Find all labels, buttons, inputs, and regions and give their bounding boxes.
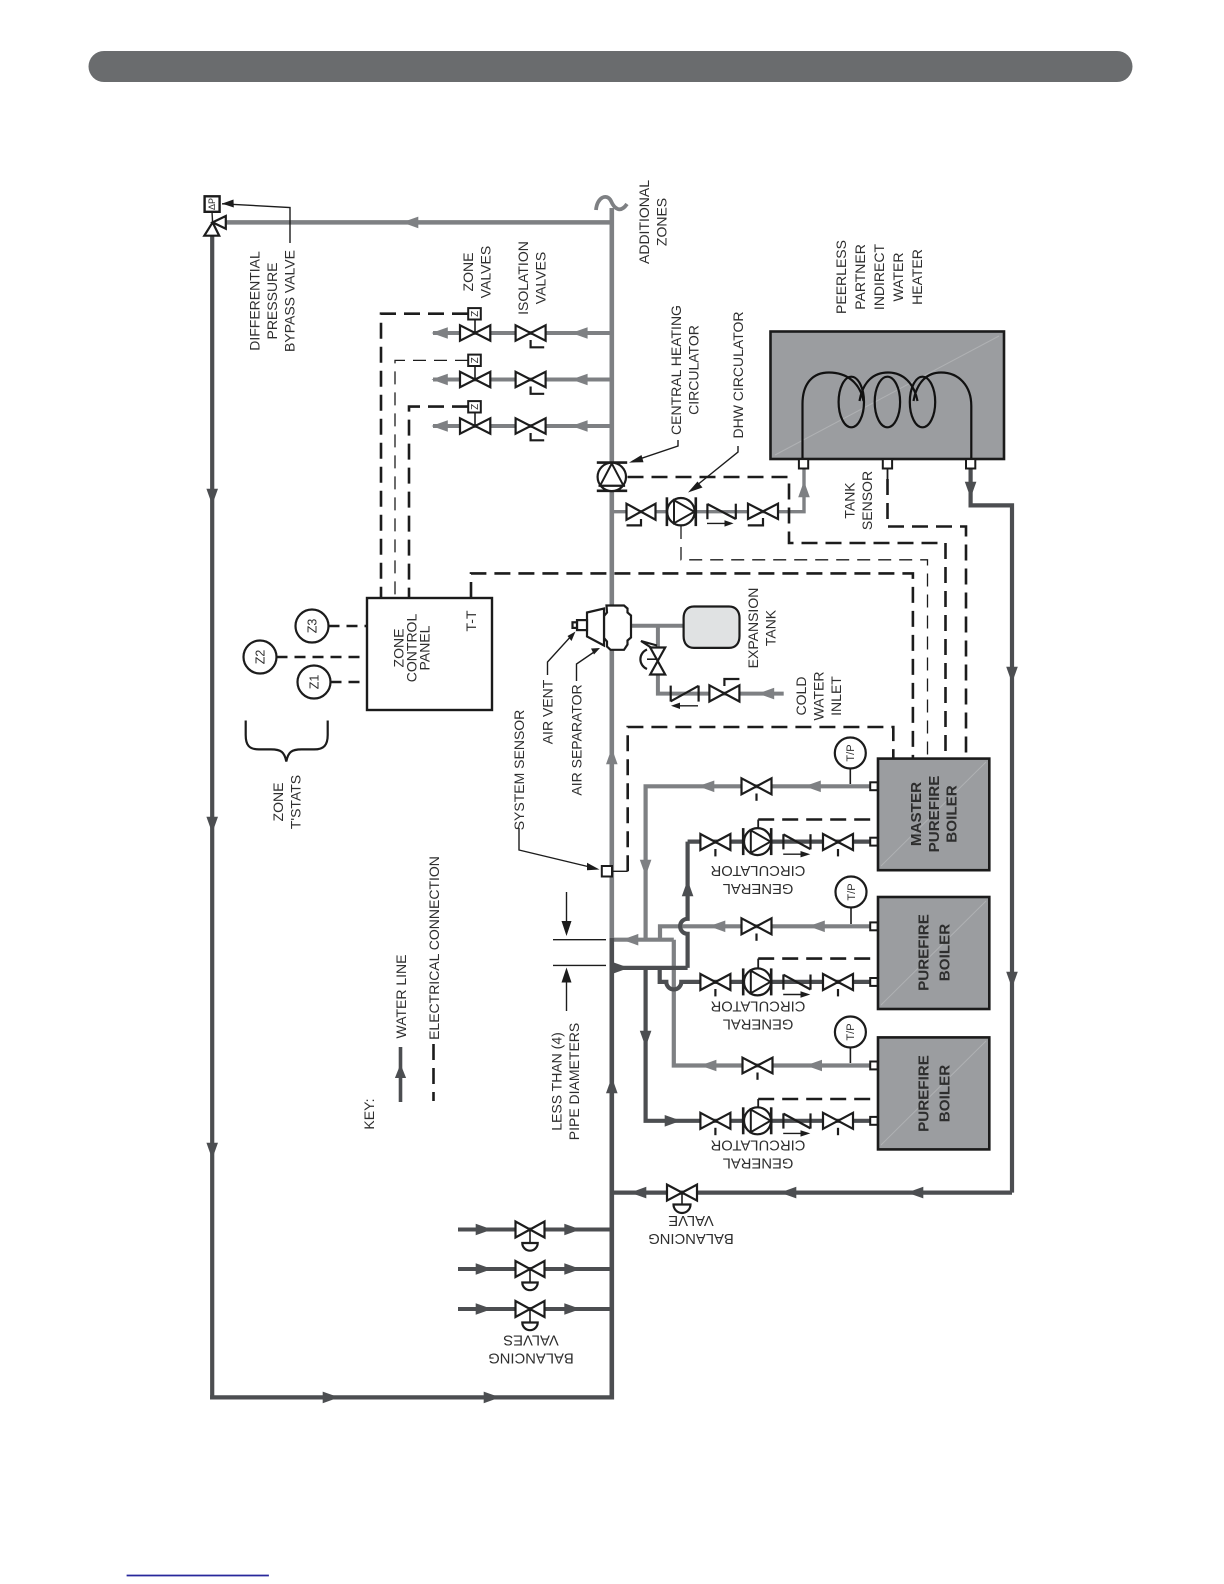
check valve: cold water (671, 686, 699, 709)
arrow: DHW riser up (798, 481, 810, 497)
balancing valve: zone return 3 (516, 1301, 545, 1330)
pump: DHW circulator (667, 497, 696, 526)
svg-text:ZONEVALVES: ZONEVALVES (460, 246, 494, 298)
arrow: zone return branch1 left arrow (476, 1224, 492, 1236)
svg-text:Z: Z (470, 404, 481, 410)
pressure reducing fill valve (640, 641, 665, 675)
svg-text:T/P: T/P (846, 883, 858, 900)
wire: thermostat Z3 to panel (329, 625, 368, 627)
ZONE VALVE ASSEMBLIES (460, 308, 546, 440)
wire: cold water fill pipe (656, 626, 660, 648)
arrow: right pipe down 2 (1006, 972, 1018, 988)
svg-text:TANKSENSOR: TANKSENSOR (842, 471, 876, 530)
svg-text:BALANCINGVALVES: BALANCINGVALVES (488, 1332, 574, 1366)
wire: zone return branch 1 (458, 1228, 612, 1232)
wire: master boiler to pump control (758, 818, 878, 821)
annotation: pipe spacing upper arrow (553, 892, 606, 940)
arrow: boiler3 return riser down (640, 1031, 652, 1047)
balancing valve: lower header (667, 1185, 697, 1213)
check valve: boiler3 return (783, 1113, 810, 1136)
svg-text:KEY:: KEY: (361, 1098, 377, 1129)
arrow: zone return branch2 left arrow (476, 1263, 492, 1275)
key: water line symbol (399, 1047, 403, 1102)
BOILER LINE COMPONENTS (700, 738, 866, 1137)
wire: supply header (612, 938, 674, 942)
wire: zone return branch 2 (458, 1267, 612, 1271)
arrow: left pipe down 3 (206, 1143, 218, 1159)
wire: main return riser lower (609, 938, 614, 1400)
thermostat Z1 circle (298, 666, 331, 699)
wire: boiler2 to pump control (758, 957, 878, 960)
arrow: left pipe down 1 (206, 489, 218, 505)
KEY LEGEND (395, 1044, 434, 1102)
arrow: zone branch1 left end (432, 327, 448, 339)
svg-text:T-T: T-T (463, 610, 479, 631)
svg-text:AIR SEPARATOR: AIR SEPARATOR (568, 684, 584, 795)
isolation valve 3 (516, 418, 546, 440)
svg-text:WATER LINE: WATER LINE (393, 954, 409, 1038)
T/P gauge master (835, 738, 866, 785)
wire: DHW circulator control (thin) (681, 526, 928, 758)
svg-text:T/P: T/P (845, 1023, 857, 1040)
wire: top bypass pipe (224, 220, 612, 225)
svg-text:SYSTEM SENSOR: SYSTEM SENSOR (511, 710, 527, 831)
arrow: boiler2 supply left segment left (709, 921, 725, 933)
arrow: return header right (613, 962, 629, 974)
zone valve 1 with Z actuator (460, 308, 490, 341)
svg-text:EXPANSIONTANK: EXPANSIONTANK (745, 588, 779, 669)
arrow: master supply left segment left (698, 781, 714, 793)
wire: tank sensor control (887, 469, 889, 481)
boiler2 PUREFIRE box (878, 897, 989, 1009)
wire: master boiler return riser V3 with hop (680, 842, 688, 968)
ARROWS-DARK (206, 482, 1017, 1403)
arrow: boiler2 supply right segment left (809, 921, 825, 933)
wire: bottom return pipe (210, 1395, 614, 1399)
wire: fill pipe lower (658, 675, 784, 694)
arrow: zone return branch3 left arrow (476, 1303, 492, 1315)
valve: boiler2 return right (823, 974, 853, 990)
water heater connector left (799, 459, 808, 468)
svg-text:Z1: Z1 (307, 675, 321, 690)
svg-text:Z: Z (470, 357, 481, 363)
water heater connector right (966, 459, 975, 468)
svg-text:Z: Z (470, 311, 481, 317)
isolation valve 2 (516, 372, 546, 394)
arrow: zone return branch2 right arrow (564, 1263, 580, 1275)
wire: central heating circulator control (628, 477, 946, 758)
wire: master boiler return line (688, 839, 870, 843)
wire: boiler3 return riser (646, 968, 870, 1121)
arrow: main return up (606, 1077, 618, 1093)
arrow: lower header left 1 (630, 1187, 646, 1199)
central heating circulator pump (597, 463, 627, 491)
svg-text:ZONET'STATS: ZONET'STATS (270, 775, 304, 829)
svg-text:BALANCINGVALVE: BALANCINGVALVE (648, 1212, 734, 1246)
leader: air separator label (577, 648, 601, 681)
boiler3 PUREFIRE box (878, 1037, 989, 1149)
T/P gauge boiler3 (835, 1017, 866, 1064)
wire: boiler2 supply line (660, 926, 870, 939)
check valve: boiler2 return (783, 975, 810, 998)
wire: system sensor to master boiler (628, 727, 894, 871)
arrow: master supply right segment left (805, 781, 821, 793)
arrow: lower header left mid (780, 1187, 796, 1199)
wire: main supply riser (609, 208, 614, 941)
check valve: DHW line (707, 504, 736, 527)
valve: DHW isolation valve (627, 504, 656, 526)
arrow: lower header left 2 (907, 1187, 923, 1199)
annotation: pipe spacing lower arrow (553, 965, 606, 1011)
svg-text:GENERALCIRCULATOR: GENERALCIRCULATOR (711, 862, 806, 896)
svg-text:DIFFERENTIALPRESSUREBYPASS VAL: DIFFERENTIALPRESSUREBYPASS VALVE (246, 250, 297, 352)
valve: DHW second isolation valve (748, 504, 778, 526)
arrow: zone branch3 inner (571, 420, 587, 432)
wire: zone supply branch 2 (433, 378, 612, 382)
BOXES (367, 332, 1004, 1150)
heat exchanger coil (803, 373, 972, 460)
wire: zone valve3 control (409, 407, 468, 598)
valve: master return right (823, 834, 853, 850)
wire: zone return branch 3 (458, 1307, 612, 1311)
balancing valve: zone return 2 (516, 1261, 545, 1290)
leader: system sensor label (519, 828, 600, 870)
svg-text:ELECTRICAL CONNECTION: ELECTRICAL CONNECTION (426, 856, 442, 1040)
svg-text:GENERALCIRCULATOR: GENERALCIRCULATOR (711, 1137, 806, 1171)
pump: boiler2 general circulator (743, 968, 771, 995)
valve: master supply (742, 778, 772, 794)
header bar (89, 51, 1133, 82)
thermostat Z3 circle (296, 610, 329, 643)
wire: zone valve2 control (thin) (395, 360, 468, 598)
svg-text:Z2: Z2 (253, 650, 267, 665)
wire: thermostat Z2 to panel (277, 656, 368, 658)
boiler connector squares (870, 782, 877, 1125)
DASHED WIRES (277, 314, 967, 1108)
blue footer line (127, 1575, 269, 1577)
zone control panel box (367, 598, 492, 710)
T/P gauge boiler2 (836, 877, 867, 925)
check valve: master return (783, 834, 810, 857)
arrow: bottom pipe right 2 (484, 1392, 500, 1404)
arrow: zone return branch1 right arrow (564, 1224, 580, 1236)
key: electrical connection symbol (432, 1044, 435, 1101)
PIPES-LIGHT (224, 197, 870, 1066)
valve: boiler3 return left (700, 1113, 730, 1129)
wire: water heater return drop (971, 466, 1012, 1193)
wire: boiler3 to pump control (758, 1098, 878, 1101)
thermostat Z2 circle (244, 641, 277, 674)
expansion tank (684, 607, 740, 648)
wire: lower return header (612, 1190, 1012, 1194)
svg-text:AIR VENT: AIR VENT (539, 679, 555, 744)
wire: master boiler supply line (646, 786, 870, 939)
svg-text:Z3: Z3 (305, 619, 319, 634)
arrow: left pipe down 2 (206, 817, 218, 833)
isolation valve 1 (516, 325, 546, 347)
faint hatch boilers (881, 762, 986, 866)
water heater connector middle (883, 459, 892, 468)
arrow: top bypass flow left (402, 217, 418, 229)
air separator (573, 606, 632, 650)
brace for zone tstats (246, 721, 328, 762)
SYMBOLS (204, 196, 778, 1011)
water heater tank body (771, 332, 1005, 460)
svg-text:ADDITIONALZONES: ADDITIONALZONES (636, 180, 670, 264)
differential pressure bypass valve (204, 196, 290, 243)
wire: return header (612, 966, 688, 970)
arrow: right pipe down 1 (1006, 667, 1018, 683)
system sensor square (602, 866, 628, 877)
svg-text:MASTERPUREFIREBOILER: MASTERPUREFIREBOILER (908, 776, 961, 853)
arrow: main supply up (606, 748, 618, 764)
svg-text:ΔP: ΔP (207, 198, 217, 210)
svg-text:COLDWATERINLET: COLDWATERINLET (793, 672, 844, 721)
leader: DHW circulator label (688, 446, 738, 493)
pump: master general circulator (743, 828, 771, 855)
wire: thermostat Z1 to panel (331, 681, 368, 683)
zone valve 3 with Z actuator (460, 401, 490, 434)
svg-text:ISOLATIONVALVES: ISOLATIONVALVES (515, 241, 549, 315)
arrow: zone branch2 left end (432, 374, 448, 386)
valve: boiler3 return right (823, 1113, 853, 1129)
wire: T-T to master boiler (471, 573, 913, 758)
pump: boiler3 general circulator (743, 1107, 771, 1134)
wire: zone valve1 control (381, 314, 468, 598)
arrow: supply header left (622, 934, 638, 946)
wire: DHW branch pipe (612, 466, 804, 512)
balancing valve: zone return 1 (516, 1222, 545, 1251)
wire: air separator to expansion tank pipe (628, 624, 684, 628)
svg-text:GENERALCIRCULATOR: GENERALCIRCULATOR (711, 998, 806, 1032)
THERMOSTATS (244, 610, 331, 762)
arrow: water heater drop down (965, 482, 977, 498)
arrow: master supply riser down (640, 860, 652, 876)
valve: cold water shutoff (709, 679, 739, 702)
arrow: cold water inlet flow left (758, 688, 774, 700)
svg-text:PEERLESSPARTNERINDIRECTWATERHE: PEERLESSPARTNERINDIRECTWATERHEATER (833, 240, 925, 314)
arrow: zone return branch3 right arrow (564, 1303, 580, 1315)
wire: left bypass return pipe (210, 234, 214, 1400)
svg-text:CENTRAL HEATINGCIRCULATOR: CENTRAL HEATINGCIRCULATOR (668, 305, 702, 435)
wire: boiler3 supply riser (674, 940, 870, 1066)
valve: boiler2 return left (700, 974, 730, 990)
valve: boiler3 supply (743, 1058, 773, 1074)
arrow: boiler3 supply left segment left (700, 1060, 716, 1072)
pipe break squiggle additional zones (596, 197, 627, 210)
svg-text:DHW CIRCULATOR: DHW CIRCULATOR (730, 311, 746, 438)
wire: zone supply branch 3 (433, 424, 612, 428)
leader: air vent label (548, 632, 576, 676)
svg-text:LESS THAN (4)PIPE DIAMETERS: LESS THAN (4)PIPE DIAMETERS (549, 1023, 583, 1140)
ARROWS-LIGHT (402, 217, 825, 1072)
BALANCING VALVES (516, 1185, 698, 1331)
wire: boiler2 return branch with hop (660, 968, 870, 990)
arrow: zone branch2 inner (571, 374, 587, 386)
arrow: bottom pipe right (323, 1392, 339, 1404)
arrow: zone branch3 left end (432, 420, 448, 432)
valve: boiler2 supply (742, 918, 772, 934)
arrow: master return riser up (682, 880, 694, 896)
leader: central heating circulator label (629, 440, 678, 463)
arrow: boiler3 supply right segment left (806, 1060, 822, 1072)
valve: master return left (700, 834, 730, 850)
arrow: zone branch1 inner (571, 327, 587, 339)
master PUREFIRE boiler box (878, 759, 989, 871)
zone valve 2 with Z actuator (460, 355, 490, 388)
svg-text:T/P: T/P (845, 744, 857, 761)
PIPES-DARK (210, 234, 1012, 1400)
arrow: boiler3 return right (665, 1115, 681, 1127)
wire: zone supply branch 1 (433, 331, 612, 335)
